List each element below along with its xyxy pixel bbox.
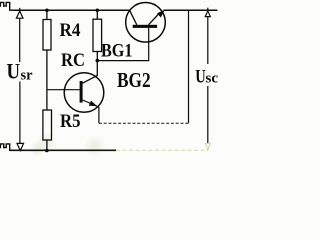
- BG1 emitter lead with arrow: [149, 10, 165, 25]
- Usr arrow top head: [16, 8, 23, 18]
- wire RC bottom to BG2 collector: [83, 61, 98, 84]
- svg-text:U: U: [195, 67, 206, 88]
- wire top rail left: [14, 9, 130, 11]
- svg-text:sc: sc: [206, 71, 219, 87]
- svg-text:RC: RC: [61, 50, 85, 71]
- node dot R5 bottom: [45, 149, 49, 153]
- transistor BG1 circle: [126, 3, 166, 43]
- svg-text:U: U: [7, 59, 21, 84]
- transistor BG2 circle: [64, 73, 104, 113]
- Usr wire lower: [19, 82, 21, 144]
- Usr arrow bottom head: [17, 143, 24, 150]
- Usr wire upper: [19, 18, 21, 62]
- wire right vertical from emitter rail: [188, 10, 190, 123]
- label Usr: [7, 59, 33, 84]
- Usc wire: [207, 17, 209, 64]
- BG2 emitter lead with arrow: [83, 100, 99, 123]
- svg-text:R4: R4: [60, 20, 81, 41]
- wire bottom rail faint right: [116, 149, 208, 151]
- node dot base junction: [96, 59, 100, 63]
- svg-text:R5: R5: [60, 111, 81, 132]
- wire top rail right: [164, 9, 218, 11]
- Usc arrow top head: [207, 8, 209, 11]
- node dot R4 top: [45, 9, 49, 13]
- Usc bottom faint head: [205, 143, 210, 150]
- square-wave source icon bottom-left: [0, 144, 14, 150]
- resistor RC: [93, 10, 102, 60]
- square-wave source icon top-left: [0, 2, 14, 10]
- dashed feedback wire: [99, 122, 189, 124]
- node dot RC top: [96, 9, 100, 13]
- wire bottom rail solid: [10, 149, 116, 151]
- resistor R4: [43, 10, 51, 110]
- label Usc: [195, 67, 218, 88]
- BG1 base bar: [133, 25, 157, 28]
- svg-text:BG2: BG2: [117, 68, 151, 92]
- svg-text:BG1: BG1: [101, 41, 133, 62]
- BG2 base bar: [80, 81, 83, 103]
- BG1 base wire down and left: [97, 28, 148, 61]
- svg-text:sr: sr: [21, 68, 33, 84]
- BG2 base lead: [47, 89, 80, 91]
- resistor R5: [43, 110, 52, 151]
- BG1 collector lead: [130, 10, 137, 24]
